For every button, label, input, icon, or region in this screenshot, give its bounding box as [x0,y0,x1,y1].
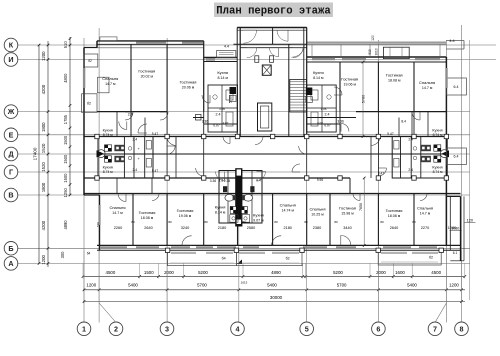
section arrow bottom axis4 [237,260,242,265]
svg-text:Кухня: Кухня [253,213,264,218]
svg-text:1500: 1500 [63,135,68,145]
leader lines [99,303,116,323]
left cluster stoves black [105,145,112,151]
svg-text:б2: б2 [286,257,290,261]
svg-text:4200: 4200 [41,84,46,94]
svg-text:2270: 2270 [421,226,429,230]
svg-text:20.06 м: 20.06 м [182,86,195,90]
svg-text:Ж: Ж [7,107,15,116]
vertical axis grid lines [83,38,85,323]
svg-text:80: 80 [304,220,308,224]
svg-text:5780: 5780 [362,95,366,103]
section arrow left [97,150,105,158]
parapet line right wing [307,41,447,43]
svg-text:2380: 2380 [313,226,321,230]
mid band partitions left wing [116,112,118,137]
svg-text:2.4: 2.4 [408,168,413,172]
svg-text:Кухня: Кухня [217,70,228,75]
svg-text:7: 7 [433,324,437,333]
toilets [225,194,234,201]
svg-text:2580: 2580 [247,226,255,230]
bottom balcony 2 [236,250,302,265]
svg-text:2.4: 2.4 [325,113,330,117]
svg-text:14.7 м: 14.7 м [105,82,116,86]
svg-text:5400: 5400 [128,282,138,287]
right wing step porch [383,47,409,58]
svg-text:4890: 4890 [63,220,68,230]
svg-text:1500: 1500 [63,154,68,164]
svg-text:1080: 1080 [448,226,456,230]
svg-text:5.47: 5.47 [152,132,159,136]
svg-text:20.02 м: 20.02 м [141,75,154,79]
right cluster stoves black [434,145,441,151]
svg-text:1785: 1785 [63,114,68,124]
svg-text:14.7 м: 14.7 м [422,86,433,90]
apartment door jambs in core [240,47,307,49]
svg-text:А: А [8,259,13,268]
svg-text:4.4: 4.4 [224,45,229,49]
Ж axis wall right [356,111,446,113]
windows right wing top [312,58,335,61]
svg-text:1250: 1250 [63,188,68,198]
svg-text:18.08 м: 18.08 м [388,214,401,218]
elevator shaft 1 [262,65,271,75]
svg-text:И: И [8,55,13,64]
svg-text:Гостиная: Гостиная [341,77,358,82]
corridor top wall [84,136,446,138]
svg-text:4890: 4890 [271,270,281,275]
svg-text:Гостиная: Гостиная [177,208,194,213]
svg-text:2640: 2640 [144,226,152,230]
svg-text:80: 80 [380,220,384,224]
stair core outline [236,28,238,137]
balcony left mid [82,94,98,113]
svg-text:2000: 2000 [376,270,386,275]
svg-text:120: 120 [371,35,375,41]
svg-text:80: 80 [131,220,135,224]
left wall windows [83,68,85,88]
svg-text:3.36: 3.36 [337,120,344,124]
svg-text:1800: 1800 [41,122,46,132]
svg-text:80: 80 [334,220,338,224]
svg-text:Кухня: Кухня [313,70,324,75]
svg-text:18.08 м: 18.08 м [388,79,401,83]
left dim column inner [69,37,71,195]
svg-text:3440: 3440 [343,226,351,230]
parapet right end box [446,40,464,42]
svg-text:4.4: 4.4 [449,39,454,43]
svg-text:Г: Г [9,168,13,177]
corridor partitions [166,137,168,179]
Ж axis wall left [97,111,167,113]
svg-text:80: 80 [204,220,208,224]
parapet box above wall [100,37,117,41]
svg-text:5200: 5200 [333,270,343,275]
svg-text:2.07: 2.07 [223,121,229,125]
bottom outer wall [97,244,461,246]
right cluster walls [392,137,447,179]
center-right bath cluster [307,85,337,132]
svg-text:1200: 1200 [449,282,459,287]
corridor door arcs [167,146,175,154]
svg-text:4500: 4500 [431,270,441,275]
svg-text:2180: 2180 [218,226,226,230]
bottom balcony 3 [378,250,441,265]
svg-text:Спальня: Спальня [280,203,296,208]
svg-text:1200: 1200 [86,282,96,287]
svg-text:0.07: 0.07 [213,124,220,128]
svg-text:300: 300 [60,251,65,259]
svg-text:6.1: 6.1 [453,251,458,255]
bottom dim row C 30000 [83,301,465,303]
svg-text:5780: 5780 [229,95,233,103]
svg-text:Б: Б [8,244,13,253]
svg-text:4800: 4800 [63,73,68,83]
svg-text:2000: 2000 [164,270,174,275]
svg-text:1013: 1013 [375,48,379,55]
horizontal axis grid lines [17,44,496,46]
bottom dim row A [83,275,465,277]
left cluster fixtures [146,141,151,150]
svg-text:2.4: 2.4 [132,138,137,142]
svg-text:6: 6 [376,324,380,333]
svg-text:1500: 1500 [144,270,154,275]
svg-text:80: 80 [412,220,416,224]
svg-text:510: 510 [63,41,68,49]
svg-text:8.14 м: 8.14 м [217,76,228,80]
svg-text:2180: 2180 [283,226,291,230]
wall pilaster squares [95,134,99,138]
axis circles numbers [77,322,91,336]
svg-text:1200: 1200 [41,51,46,61]
svg-text:6.4: 6.4 [454,155,459,159]
svg-text:б2: б2 [429,256,433,260]
svg-text:8.74 м: 8.74 м [103,170,114,174]
svg-text:8.14 м: 8.14 м [215,211,226,215]
svg-text:80: 80 [274,220,278,224]
svg-text:19.06 м: 19.06 м [343,83,356,87]
right outer wall [445,57,447,245]
svg-text:8.4: 8.4 [401,120,406,124]
svg-text:2260: 2260 [114,226,122,230]
svg-text:3: 3 [165,324,169,333]
svg-text:3.36: 3.36 [210,179,217,183]
svg-text:30000: 30000 [270,295,283,300]
svg-text:5400: 5400 [267,282,277,287]
svg-text:4: 4 [236,324,240,333]
svg-text:14.74 м: 14.74 м [281,209,294,213]
svg-text:8.14 м: 8.14 м [313,76,324,80]
axis circles letters [4,38,18,52]
svg-text:18.08 м: 18.08 м [141,216,154,220]
svg-text:2.4: 2.4 [128,113,133,117]
svg-text:Гостиная: Гостиная [386,208,403,213]
svg-text:2.35: 2.35 [224,179,231,183]
title bar [214,3,333,18]
svg-text:80: 80 [168,220,172,224]
svg-text:510: 510 [368,49,372,55]
sink boxes bottom cluster [230,215,238,223]
svg-text:19.06 м: 19.06 м [179,214,192,218]
svg-text:8.74 м: 8.74 м [103,133,114,137]
svg-text:5.47: 5.47 [152,169,159,173]
svg-text:5200: 5200 [198,270,208,275]
svg-text:К: К [9,41,14,50]
top mid partitions [130,112,132,137]
svg-text:1013: 1013 [241,280,248,284]
top row partitions [130,44,132,111]
svg-text:17400: 17400 [33,147,38,160]
svg-text:б4: б4 [222,257,226,261]
bottom balcony 1 [168,250,237,265]
svg-text:1520: 1520 [41,162,46,172]
upper partition y124 [204,123,238,125]
right cluster fixtures [394,141,399,150]
svg-text:8: 8 [460,324,464,333]
svg-text:Гостиная: Гостиная [339,206,356,211]
bottom dim row B [83,289,465,291]
bottom center cluster [219,171,262,224]
balcony right top [446,78,466,95]
center-left bath cluster [208,85,238,132]
svg-text:4200: 4200 [41,220,46,230]
svg-text:9.07 м: 9.07 м [253,219,264,223]
svg-text:Е: Е [9,130,14,139]
bottom row door arcs at B wall [118,194,126,202]
balcony left upper [84,54,98,67]
svg-text:2640: 2640 [390,226,398,230]
right wall windows [445,68,447,88]
hall wall (B axis) [84,193,461,195]
svg-text:9.96: 9.96 [317,178,323,182]
svg-text:5: 5 [305,324,309,333]
section line through building [99,153,446,155]
svg-text:3.36: 3.36 [202,120,209,124]
outer wall center-left section top [204,57,238,59]
svg-text:4500: 4500 [106,270,116,275]
left cluster walls [98,137,153,179]
svg-text:8.74 м: 8.74 м [433,133,444,137]
corridor bottom wall [84,177,350,179]
sinks [223,186,227,192]
svg-text:Гостиная: Гостиная [386,73,403,78]
svg-text:б2: б2 [87,102,91,106]
right cluster appliances [420,145,431,151]
bottom extension lines [83,251,85,304]
svg-text:Д: Д [8,150,13,159]
svg-text:1.06: 1.06 [321,107,327,111]
svg-text:План первого этажа: План первого этажа [216,6,331,18]
wardrobe box top-left room [98,77,110,93]
vestibule wall [233,43,306,45]
porch steps center-left [217,51,236,58]
svg-text:10.25 м: 10.25 м [311,213,324,217]
svg-text:Кухня: Кухня [215,205,226,210]
svg-text:б2: б2 [88,59,92,63]
svg-text:Спальня: Спальня [109,205,125,210]
svg-text:3240: 3240 [181,226,189,230]
svg-text:0.4: 0.4 [256,179,261,183]
svg-text:0.07: 0.07 [324,124,331,128]
interior dim 5780 right wing [362,62,364,137]
windows bottom wall [100,246,127,249]
svg-text:5.47: 5.47 [387,132,394,136]
left dim column axis spacings [47,41,49,267]
bottom row partitions [132,194,134,246]
section arrow right [440,150,448,158]
svg-text:510: 510 [96,222,100,227]
mid band partitions right wing [427,112,429,137]
hall band stubs [116,178,118,194]
svg-text:Спальня: Спальня [417,206,433,211]
balcony right mid [446,148,466,165]
svg-text:6.4: 6.4 [454,85,459,89]
left outer wall [96,41,98,48]
stoves black bottom cluster [230,207,236,214]
svg-text:2.4: 2.4 [216,113,221,117]
svg-text:7650: 7650 [359,203,363,211]
svg-text:Гостиная: Гостиная [138,69,155,74]
svg-text:Спальня: Спальня [309,207,325,212]
outer wall left wing top [97,40,204,42]
svg-text:2: 2 [114,324,118,333]
svg-text:120: 120 [467,218,473,222]
staircase [290,80,307,113]
elevator shaft 2 [258,103,272,131]
svg-text:8.74 м: 8.74 м [433,170,444,174]
svg-text:1800: 1800 [41,182,46,192]
svg-text:1500: 1500 [63,173,68,183]
svg-text:5700: 5700 [337,282,347,287]
outer wall right wing top [307,56,447,58]
svg-text:5700: 5700 [197,282,207,287]
svg-text:15.98 м: 15.98 м [341,212,354,216]
interior dim 7650 right [363,178,365,245]
cluster door arcs [216,172,225,181]
svg-text:2.4: 2.4 [132,168,137,172]
svg-text:1200: 1200 [41,254,46,264]
svg-text:14.7 м: 14.7 м [420,212,431,216]
svg-text:14.7 м: 14.7 м [112,211,123,215]
door arcs various [119,122,127,130]
svg-text:+: + [138,147,140,151]
svg-text:0.47: 0.47 [378,172,384,176]
left cluster appliances [114,145,125,151]
svg-text:1600: 1600 [395,270,405,275]
svg-text:Гостиная: Гостиная [139,210,156,215]
entrance door arcs [244,30,257,43]
svg-text:2.07: 2.07 [317,121,323,125]
left dim column 17400 [38,45,40,263]
svg-text:1520: 1520 [41,143,46,153]
vent shaft black [235,168,242,226]
svg-text:Спальня: Спальня [102,76,118,81]
windows left wing top [136,42,166,44]
svg-text:+: + [138,157,140,161]
svg-text:б4: б4 [87,252,91,256]
svg-text:5400: 5400 [407,282,417,287]
svg-text:Гостиная: Гостиная [180,80,197,85]
svg-text:1.06: 1.06 [219,107,225,111]
right dim columns [469,40,471,300]
svg-text:1: 1 [82,324,86,333]
svg-text:В: В [8,191,13,200]
center cluster stoves [230,87,237,94]
svg-text:80: 80 [242,220,246,224]
svg-text:Спальня: Спальня [419,80,435,85]
